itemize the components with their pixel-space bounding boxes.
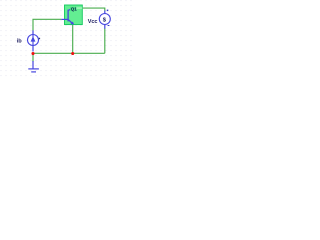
ground lead xyxy=(32,61,34,69)
collector diagonal xyxy=(69,8,73,10)
ground bar 1 xyxy=(28,68,39,70)
junction dot left xyxy=(31,52,34,55)
Vcc plus mark xyxy=(107,10,109,12)
pale wire segment inside selection xyxy=(72,7,83,9)
emitter arrowhead xyxy=(71,22,75,25)
wire bottom rail xyxy=(33,52,105,54)
background xyxy=(0,0,132,79)
Vcc minus mark xyxy=(108,25,110,26)
wire ground stub xyxy=(32,53,34,62)
wire emitter net: Q1 emitter down xyxy=(72,24,74,53)
junction dot right xyxy=(71,52,74,55)
svg-text:Vcc: Vcc xyxy=(88,19,98,25)
emitter diagonal xyxy=(68,20,72,23)
selection box around Q1 xyxy=(65,5,83,25)
base bar xyxy=(67,10,69,22)
ground bar 2 xyxy=(31,71,36,73)
wire base net: ib top to Q1 base xyxy=(33,8,105,62)
ib polarity mark xyxy=(39,38,40,39)
base lead xyxy=(61,18,68,20)
current source inner line xyxy=(32,35,34,45)
current source ib bottom lead xyxy=(32,45,34,51)
svg-text:ib: ib xyxy=(17,39,23,45)
voltage source Vcc bottom lead xyxy=(104,25,106,29)
voltage source Vcc top lead xyxy=(104,11,106,14)
current source ib top lead xyxy=(32,30,34,34)
transistor Q1 xyxy=(61,8,72,23)
voltage source Vcc circle xyxy=(99,14,110,25)
current source ib circle xyxy=(28,35,39,46)
wire Vcc bottom lead down xyxy=(104,29,106,54)
svg-text:Q1: Q1 xyxy=(71,7,78,12)
current source arrow xyxy=(31,36,36,41)
wire collector net: Q1 collector to Vcc top xyxy=(75,8,105,11)
Q1 label patch xyxy=(70,7,76,11)
